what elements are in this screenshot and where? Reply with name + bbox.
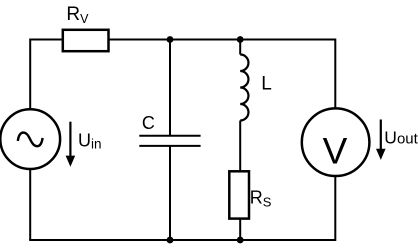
source V1 sine symbol: [18, 133, 43, 147]
meter M1 voltmeter circle: [302, 108, 370, 176]
wire capacitor branch lower: [169, 146, 171, 241]
svg-text:L: L: [261, 74, 272, 95]
svg-text:Uin: Uin: [78, 130, 102, 151]
svg-text:RV: RV: [66, 4, 89, 26]
svg-text:Uout: Uout: [384, 127, 418, 147]
capacitor C1 top plate: [139, 135, 200, 137]
resistor R1 RV body: [63, 30, 109, 51]
arrow Uin: [66, 122, 76, 167]
resistor R2 RS body: [229, 171, 249, 218]
inductor L1 coil: [240, 55, 248, 121]
svg-text:C: C: [142, 113, 155, 133]
wire RS to bottom: [239, 219, 241, 241]
wire right vertical lower: [334, 175, 336, 241]
wire capacitor branch upper: [169, 39, 171, 136]
wire inductor to RS: [239, 121, 241, 172]
wire right vertical upper: [334, 39, 336, 111]
svg-text:RS: RS: [250, 188, 272, 210]
arrow Uout: [376, 120, 386, 160]
node junction top inductor: [237, 36, 244, 43]
node junction top capacitor: [167, 36, 174, 43]
wire top from RV to right corner: [109, 39, 336, 41]
wire left vertical upper: [29, 39, 31, 111]
source V1 AC circle: [0, 109, 60, 169]
wire bottom: [29, 239, 335, 241]
wire top from source to RV: [30, 39, 63, 41]
wire left vertical lower: [29, 168, 31, 240]
node junction bottom capacitor: [167, 237, 174, 244]
svg-text:V: V: [323, 131, 348, 172]
node junction bottom inductor: [237, 237, 244, 244]
wire inductor branch upper: [239, 39, 241, 55]
capacitor C1 bottom plate: [139, 145, 200, 147]
